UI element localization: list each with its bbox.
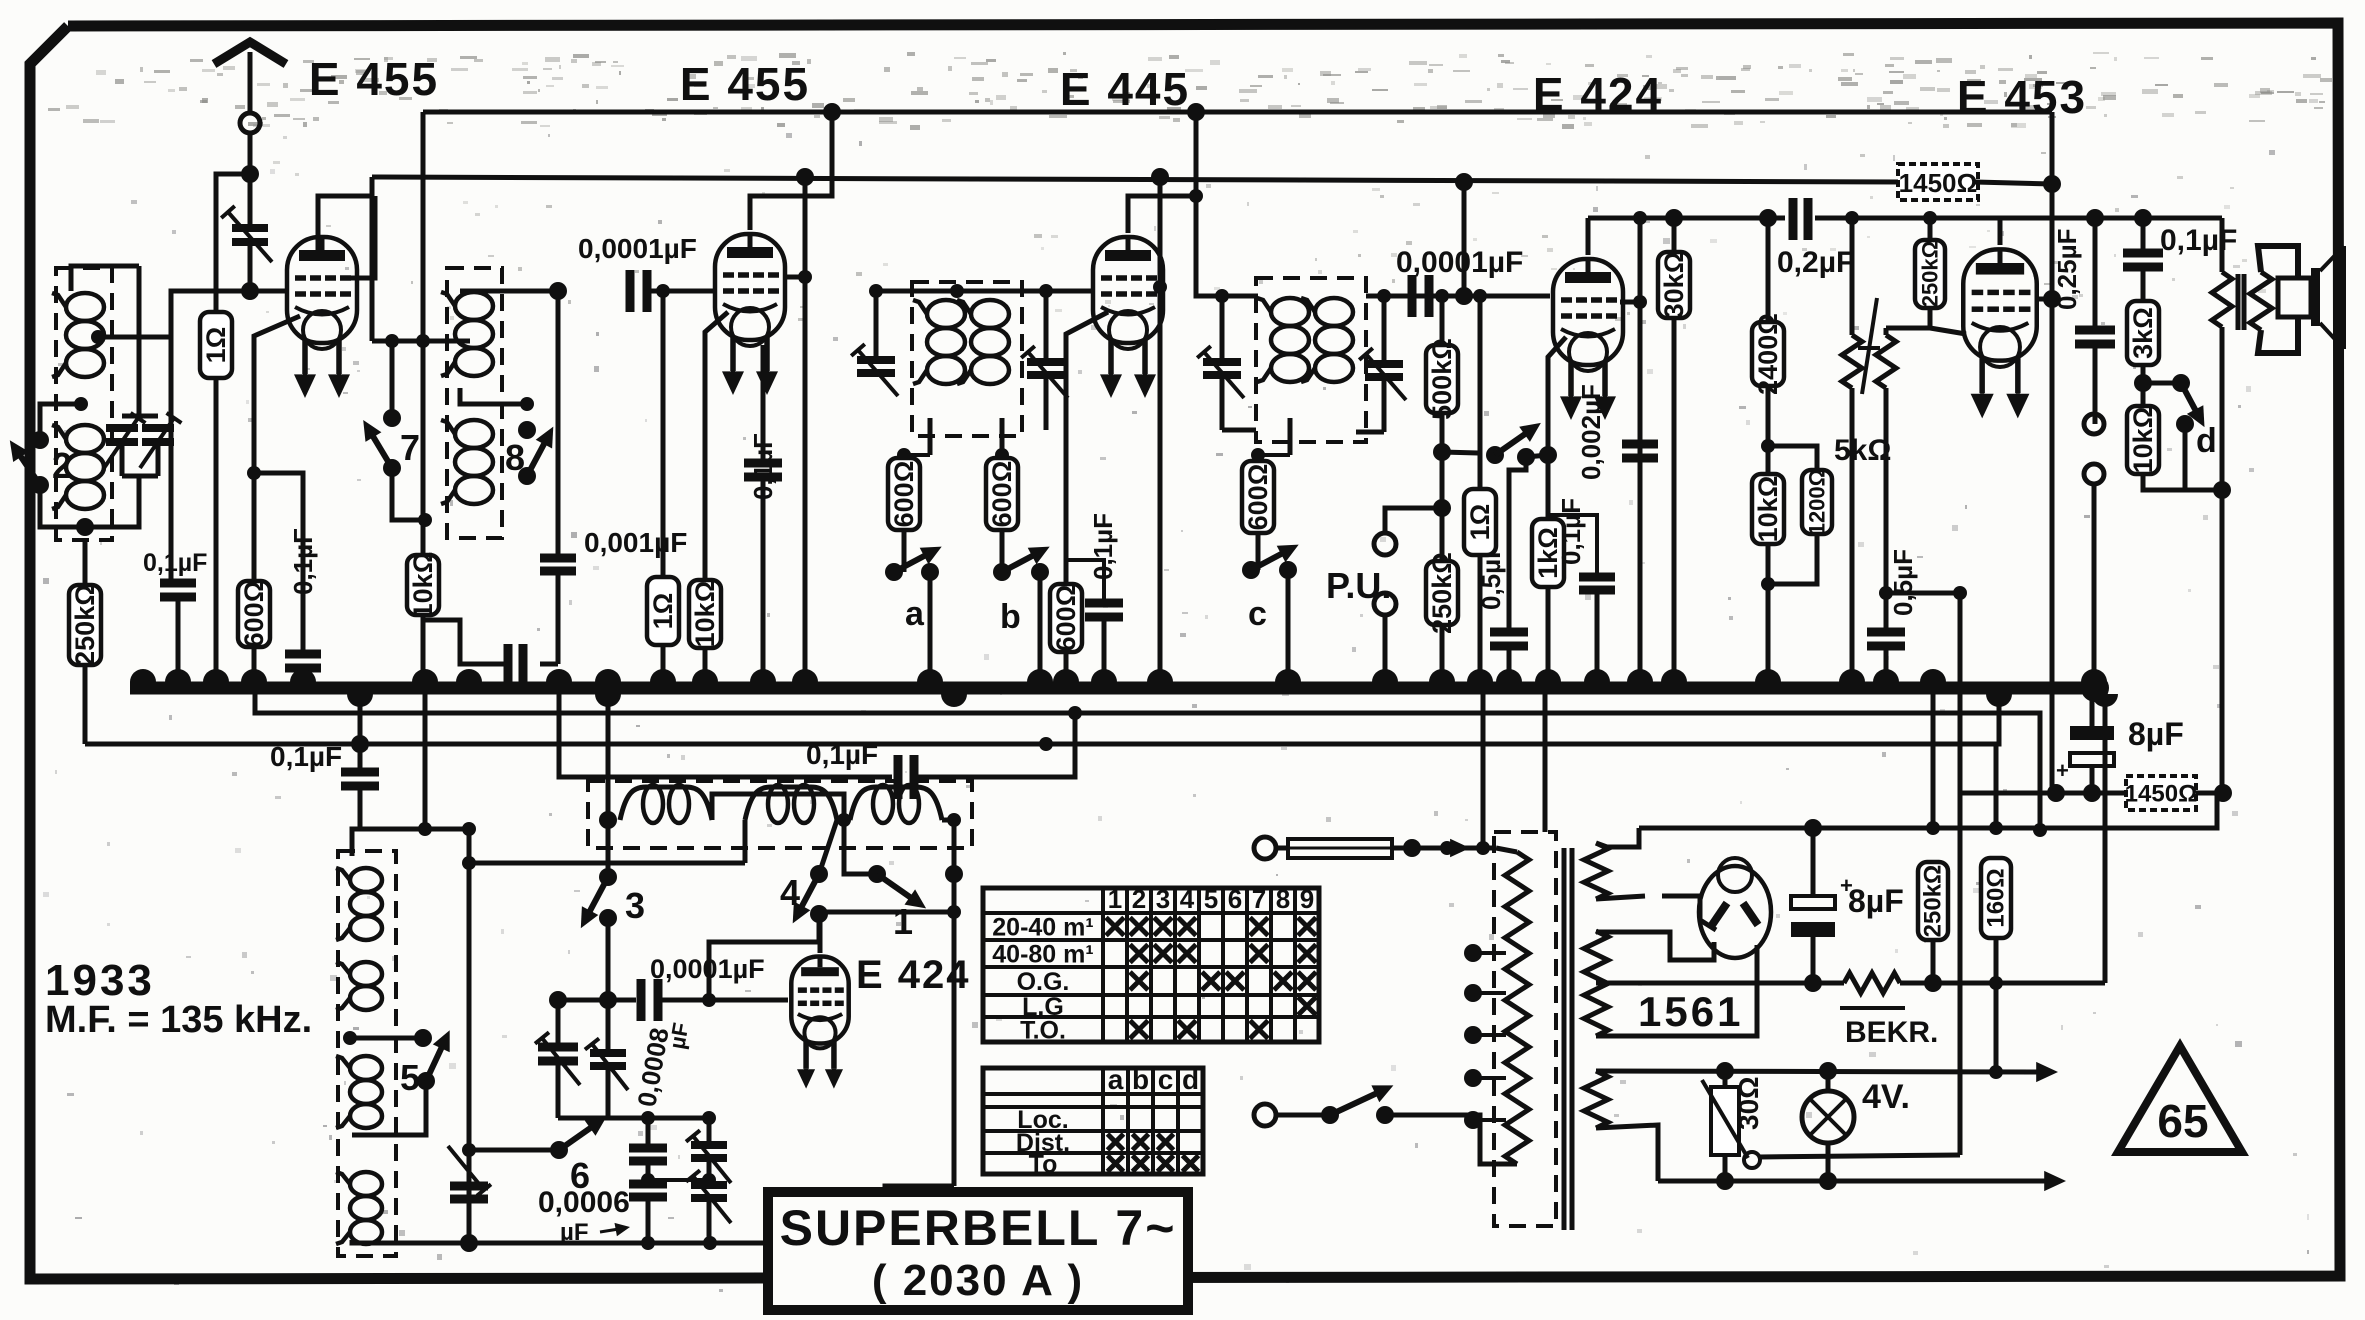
svg-text:0,1µF: 0,1µF bbox=[288, 528, 318, 595]
switch 3 bbox=[606, 688, 611, 820]
wire heater bottom bbox=[1596, 1125, 1658, 1181]
resistor 1 ohm stage4 bbox=[1478, 296, 1483, 489]
switch d bbox=[2143, 381, 2181, 386]
capacitor 0.1uF cathode stage2 bbox=[761, 345, 766, 461]
svg-text:8µF: 8µF bbox=[1848, 883, 1904, 919]
svg-text:8: 8 bbox=[505, 437, 525, 478]
tube V5 E453 bbox=[1963, 249, 2037, 360]
wire HT rail bbox=[1639, 793, 2217, 828]
wire anode supply line 218 bbox=[1588, 216, 2222, 221]
svg-text:10kΩ: 10kΩ bbox=[1753, 476, 1783, 543]
svg-text:0,1µF: 0,1µF bbox=[806, 739, 878, 770]
wire to 1ohm resistor bbox=[216, 174, 250, 312]
svg-text:8: 8 bbox=[1276, 884, 1290, 914]
svg-text:600Ω: 600Ω bbox=[239, 581, 269, 648]
wire field to 250k bbox=[1900, 981, 2105, 986]
wire 1ohm to bus bbox=[214, 378, 219, 688]
resistor 1k ohm stage4 cathode bbox=[1548, 337, 1566, 519]
resistor 3k ohm bbox=[2127, 301, 2159, 365]
svg-text:10kΩ: 10kΩ bbox=[690, 581, 720, 648]
resistor 1 ohm stage2 bbox=[661, 291, 666, 577]
wire osc feed column bbox=[423, 688, 428, 829]
node trimmer left stage3 bbox=[869, 284, 883, 298]
tube V2 E455 bbox=[715, 234, 785, 340]
scan noise speckles bbox=[1498, 54, 1504, 57]
oscillator coil dashed box bbox=[338, 851, 396, 1256]
mains transformer primary dashed box bbox=[1494, 832, 1556, 1226]
switch 5 bbox=[350, 1036, 423, 1041]
switch 2 bbox=[40, 404, 81, 440]
trimmer cap stage4 right bbox=[1377, 289, 1391, 303]
node T5 grid bbox=[2043, 290, 2061, 308]
wire rectifier cathode bbox=[1596, 945, 1757, 1036]
label BEKR bbox=[1840, 1006, 1905, 1010]
resistor 250k ohm stage1 bbox=[83, 540, 88, 585]
wire padder bottoms bbox=[558, 1116, 709, 1121]
coil L3a bbox=[927, 300, 965, 328]
svg-text:b: b bbox=[1132, 1064, 1149, 1095]
node T4 screen supply bbox=[1633, 211, 1647, 225]
svg-text:0,0001µF: 0,0001µF bbox=[650, 954, 765, 984]
node 1ohm stage2 bbox=[656, 284, 670, 298]
resistor 30k ohm bbox=[1672, 218, 1677, 252]
svg-text:250kΩ: 250kΩ bbox=[1920, 865, 1947, 938]
osc coil H3 bbox=[850, 787, 942, 820]
svg-text:1Ω: 1Ω bbox=[648, 593, 678, 630]
wire rail below bus 713 bbox=[255, 688, 2040, 830]
svg-text:P.U.: P.U. bbox=[1326, 565, 1391, 606]
trimmer cap stage4 left bbox=[1215, 289, 1229, 303]
svg-text:1Ω: 1Ω bbox=[1465, 504, 1495, 541]
resistor 2400 ohm bbox=[1766, 218, 1771, 322]
resistor 600 ohm a bbox=[897, 448, 911, 462]
switch 4 bbox=[810, 865, 828, 883]
svg-text:160Ω: 160Ω bbox=[1983, 868, 2010, 927]
node 0.001 junction bbox=[549, 282, 567, 300]
wire coil top to grid cap bbox=[460, 289, 558, 294]
mains switch terminal bbox=[1254, 1104, 1276, 1126]
wire T5 grid bbox=[2036, 297, 2052, 302]
svg-text:1933: 1933 bbox=[45, 956, 155, 1005]
switch 8 bbox=[520, 397, 534, 411]
resistor 600 ohm b bbox=[995, 448, 1009, 462]
wire padder mid link bbox=[648, 1178, 709, 1182]
node osc top bbox=[418, 822, 432, 836]
revision triangle 65 bbox=[2118, 1046, 2242, 1152]
wire T3 screen bbox=[1158, 177, 1163, 688]
trimmer cap stage3 left bbox=[874, 291, 879, 358]
svg-text:E 455: E 455 bbox=[309, 53, 439, 105]
wire osc right column bbox=[467, 829, 472, 1243]
svg-text:250kΩ: 250kΩ bbox=[1918, 241, 1943, 308]
resistor 600 ohm stage3 cathode bbox=[1066, 312, 1108, 584]
resistor 1 ohm stage1 bbox=[200, 312, 232, 378]
svg-text:0,0001µF: 0,0001µF bbox=[1396, 246, 1523, 279]
wire rail B drop stage4 bbox=[1462, 182, 1467, 296]
node T3 anode bbox=[1189, 189, 1203, 203]
resistor 1450 ohm second bbox=[2126, 776, 2196, 810]
secondary winding HV bbox=[1584, 843, 1608, 899]
switch 1 bbox=[868, 865, 886, 883]
wire coil bottoms stage3 bbox=[928, 418, 933, 455]
svg-text:+: + bbox=[2056, 758, 2069, 783]
wire 500k to switch row bbox=[1440, 413, 1445, 508]
transformer primary winding bbox=[1505, 852, 1529, 1164]
resistor 1450 ohm bbox=[1898, 164, 1978, 200]
capacitor 0.1uF cathode stage1 bbox=[254, 473, 303, 654]
svg-text:1450Ω: 1450Ω bbox=[1899, 168, 1978, 198]
resistor 10k ohm stage5 bbox=[1766, 386, 1771, 474]
node grid stage1 bbox=[241, 282, 259, 300]
IF transformer 3 dashed box bbox=[912, 282, 1022, 436]
oscillator padder dashed box bbox=[588, 781, 972, 848]
svg-text:T.O.: T.O. bbox=[1020, 1017, 1066, 1045]
node 500k top bbox=[1435, 289, 1449, 303]
mains switch bbox=[1276, 1113, 1330, 1118]
wire rail A +HT top bbox=[423, 110, 2052, 115]
svg-text:30Ω: 30Ω bbox=[1733, 1076, 1764, 1130]
switch PU change bbox=[1442, 452, 1478, 453]
node T3 rail A bbox=[1187, 103, 1205, 121]
svg-text:250kΩ: 250kΩ bbox=[1427, 552, 1457, 634]
wire rect fil lead bbox=[1596, 932, 1714, 960]
wire heater return rail bbox=[1658, 1179, 2048, 1184]
resistor 600 ohm stage1 cathode bbox=[254, 316, 300, 581]
output transformer core bbox=[2236, 274, 2241, 330]
phone jack terminals bbox=[2084, 414, 2104, 434]
svg-text:500kΩ: 500kΩ bbox=[1427, 338, 1457, 420]
wire rail B left drop to T1 anode bbox=[318, 177, 372, 252]
ground bus bbox=[130, 682, 2105, 695]
capacitor 0.5uF stage4 bbox=[1509, 457, 1526, 632]
wire T4 anode bbox=[1586, 218, 1591, 255]
tube V4 E424 IF bbox=[1553, 259, 1623, 365]
speaker voice coil bbox=[2250, 272, 2272, 330]
wire osc anode bbox=[820, 912, 954, 953]
coil L4b bbox=[1315, 298, 1353, 326]
node stage4 grid bbox=[1455, 287, 1473, 305]
svg-text:1: 1 bbox=[893, 901, 913, 942]
svg-text:7: 7 bbox=[400, 427, 420, 468]
node T2 anode rail A bbox=[823, 103, 841, 121]
tube V3 E445 bbox=[1093, 237, 1163, 343]
svg-text:µF: µF bbox=[664, 1021, 693, 1051]
svg-text:1561: 1561 bbox=[1638, 988, 1743, 1035]
coil L3b bbox=[971, 300, 1009, 328]
wire rect filament bbox=[1700, 920, 1716, 930]
svg-text:d: d bbox=[2196, 422, 2217, 460]
svg-text:To: To bbox=[1029, 1151, 1058, 1179]
capacitor 0.1uF stage1 grid return bbox=[169, 337, 174, 583]
IF transformer 4 dashed box bbox=[1256, 278, 1366, 442]
svg-text:3: 3 bbox=[625, 885, 645, 926]
wire sw1 to coil H3 bbox=[844, 820, 877, 874]
bus junction bumps bbox=[130, 669, 156, 682]
node rail B end bbox=[2043, 175, 2061, 193]
svg-text:0,0006: 0,0006 bbox=[538, 1186, 630, 1219]
resistor 250k ohm psu bbox=[1931, 694, 1936, 828]
svg-text:9: 9 bbox=[1300, 884, 1314, 914]
wire rail A right drop to E453 grid bbox=[2050, 112, 2055, 299]
primary taps bbox=[1464, 944, 1482, 962]
svg-text:µF: µF bbox=[560, 1219, 589, 1246]
svg-text:600Ω: 600Ω bbox=[1243, 464, 1273, 531]
wire hum pot feed bbox=[1958, 593, 1963, 1155]
wire grid bias line bbox=[1962, 791, 2126, 796]
node coil tap bbox=[91, 330, 105, 344]
node coil bottom bbox=[76, 518, 94, 536]
wire bus to transformer riser bbox=[1543, 688, 1548, 832]
IF transformer 1 dashed box bbox=[56, 268, 112, 540]
svg-text:5: 5 bbox=[400, 1057, 420, 1098]
svg-text:1450Ω: 1450Ω bbox=[2125, 781, 2198, 808]
speaker field return bbox=[2220, 327, 2225, 793]
node coil L3a top bbox=[950, 284, 964, 298]
secondary winding heaters 4V bbox=[1584, 1071, 1608, 1128]
secondary winding rect filament bbox=[1584, 931, 1608, 1036]
IF transformer 2 dashed box bbox=[447, 268, 502, 538]
capacitor 0.1uF stage3 cathode bbox=[1066, 560, 1104, 601]
resistor 500k ohm bbox=[1440, 296, 1445, 345]
volume pot 5k zigzag bbox=[1884, 328, 1889, 335]
svg-text:0,1µF: 0,1µF bbox=[143, 549, 207, 577]
svg-text:7: 7 bbox=[1252, 884, 1266, 914]
wire rail B screen supply bbox=[372, 177, 1903, 182]
svg-text:5kΩ: 5kΩ bbox=[1834, 434, 1891, 467]
wire 250k to AVC line bbox=[83, 665, 88, 744]
wire coil box top bbox=[352, 829, 361, 856]
wire AVC rail 777 bbox=[559, 688, 892, 777]
coil L1a bbox=[66, 293, 104, 321]
divider zigzag left bbox=[1850, 218, 1855, 335]
fuse bbox=[1276, 846, 1288, 851]
osc coil W3 bbox=[350, 1056, 382, 1080]
svg-text:3: 3 bbox=[1156, 884, 1170, 914]
osc coil H2 bbox=[743, 820, 748, 863]
svg-text:M.F. = 135 kHz.: M.F. = 135 kHz. bbox=[45, 999, 312, 1041]
speaker horn bbox=[2320, 246, 2344, 271]
wire H2 to switch4 bbox=[819, 820, 837, 874]
osc coil W2 bbox=[350, 962, 382, 986]
wire grid line T1 bbox=[98, 291, 287, 337]
resistor 250k grid E453 bbox=[1845, 211, 1859, 225]
node T3 screen rail B bbox=[1151, 168, 1169, 186]
osc coil W4 bbox=[350, 1172, 382, 1196]
svg-text:1: 1 bbox=[1108, 884, 1122, 914]
switch 7 bbox=[385, 334, 399, 348]
wire osc cathode return bbox=[885, 1186, 954, 1243]
wire osc grid line bbox=[558, 998, 636, 1003]
svg-text:b: b bbox=[1000, 598, 1021, 636]
svg-text:a: a bbox=[905, 595, 925, 633]
switch a bbox=[902, 530, 907, 572]
wire bus to fuse line riser bbox=[1481, 688, 1486, 848]
svg-text:0,0001µF: 0,0001µF bbox=[578, 233, 697, 264]
node y218 caps bbox=[2086, 209, 2104, 227]
field coil BEKR bbox=[1844, 973, 1900, 993]
speaker leads bbox=[2258, 246, 2298, 278]
wire T2 screen bbox=[803, 177, 808, 688]
wire cap to T2 grid bbox=[647, 289, 716, 294]
wire osc bottom bbox=[352, 1240, 469, 1243]
wire osc top line bbox=[361, 827, 469, 832]
trimmer cap pair stage1 bbox=[122, 414, 158, 419]
wire fuse to primary bbox=[1392, 846, 1496, 851]
node 30k bbox=[1665, 209, 1683, 227]
node 744 bbox=[1039, 737, 1053, 751]
wire anode to rail A and IF3 bbox=[1196, 112, 1258, 296]
coil L4a bbox=[1271, 298, 1309, 326]
svg-text:2400Ω: 2400Ω bbox=[1753, 313, 1783, 395]
svg-text:20-40 m¹: 20-40 m¹ bbox=[992, 914, 1093, 942]
node AVC join bbox=[351, 735, 369, 753]
wire grid return down bbox=[2050, 299, 2055, 793]
svg-text:4: 4 bbox=[780, 872, 800, 913]
switch table 2 bbox=[983, 1068, 1203, 1174]
node B tap bbox=[1804, 974, 1822, 992]
svg-text:3kΩ: 3kΩ bbox=[2128, 307, 2158, 359]
svg-text:65: 65 bbox=[2157, 1095, 2208, 1147]
wire rail B right end bbox=[1975, 182, 2052, 184]
wire B+ tap bbox=[1596, 981, 1844, 986]
wire bus to B- bbox=[2103, 688, 2108, 983]
wire rail A left drop bbox=[421, 112, 426, 555]
switch table 1 bbox=[983, 888, 1319, 1042]
svg-text:2: 2 bbox=[1132, 884, 1146, 914]
wire sw1 column bbox=[952, 874, 957, 912]
tube V6 E424 oscillator bbox=[791, 957, 848, 1044]
svg-text:SUPERBELL 7~: SUPERBELL 7~ bbox=[780, 1200, 1177, 1256]
wire T3 anode bbox=[1128, 196, 1196, 233]
svg-text:+: + bbox=[1840, 873, 1853, 898]
resistor 1200 ohm bbox=[1768, 446, 1817, 470]
antenna bbox=[248, 52, 253, 114]
trimmer cap stage3 right bbox=[1044, 291, 1049, 360]
wire HV bottom lead broken bbox=[1596, 896, 1645, 899]
resistor 250k ohm stage4 bbox=[1433, 499, 1451, 517]
wire switch to primary bottom bbox=[1385, 1115, 1517, 1164]
switch b bbox=[1000, 530, 1005, 572]
wire grid line stage3 bbox=[876, 289, 1094, 294]
svg-text:E 445: E 445 bbox=[1060, 63, 1190, 115]
wire to twin trimmers bbox=[137, 266, 142, 416]
wire T1 anode lead bbox=[316, 233, 321, 252]
wire T1 screen bbox=[345, 196, 375, 278]
title box SUPERBELL bbox=[768, 1192, 1188, 1310]
svg-text:600Ω: 600Ω bbox=[889, 461, 919, 528]
rheostat 30 ohm bbox=[1723, 1071, 1728, 1087]
node cathode net bbox=[247, 466, 261, 480]
wire T2 anode bbox=[750, 112, 832, 230]
wire antenna lead bbox=[248, 133, 253, 174]
mains fuse terminal bbox=[1254, 837, 1276, 859]
transformer core bbox=[1562, 848, 1567, 1230]
output transformer primary bbox=[2220, 218, 2225, 272]
svg-text:0,1µF: 0,1µF bbox=[2160, 224, 2237, 257]
wire heater rail bbox=[1596, 1071, 2040, 1072]
osc padding caps left bbox=[556, 1000, 561, 1045]
pot wiper arrow bbox=[1862, 298, 1877, 394]
capacitor 0.1uF stage4 cathode bbox=[1548, 515, 1597, 577]
wire IF4 secondary to grid bbox=[1366, 294, 1550, 299]
svg-text:5: 5 bbox=[1204, 884, 1218, 914]
resistor 10k ohm stage2b bbox=[705, 312, 728, 580]
trimmer cap 0.0006 bbox=[467, 1150, 472, 1184]
node T2 screen rail B bbox=[796, 168, 814, 186]
svg-text:0,1µF: 0,1µF bbox=[1556, 498, 1586, 565]
svg-text:600Ω: 600Ω bbox=[987, 461, 1017, 528]
svg-text:250kΩ: 250kΩ bbox=[70, 584, 100, 666]
svg-text:0,5µF: 0,5µF bbox=[1888, 549, 1918, 616]
node stage3 grid right bbox=[1039, 284, 1053, 298]
node HT bbox=[1804, 819, 1822, 837]
resistor 600 ohm stage4 bbox=[1288, 418, 1293, 455]
wire coil L2 mid tap bbox=[460, 388, 527, 404]
svg-text:2: 2 bbox=[52, 445, 72, 486]
wire coil8 line bbox=[372, 339, 470, 344]
svg-text:BEKR.: BEKR. bbox=[1845, 1016, 1938, 1049]
trimmer capacitor antenna bbox=[248, 174, 253, 226]
antenna terminal bbox=[240, 113, 260, 133]
svg-text:1200Ω: 1200Ω bbox=[1805, 469, 1830, 536]
svg-text:0,25µF: 0,25µF bbox=[2052, 229, 2082, 310]
wire hum pot wiper bbox=[1759, 1155, 1960, 1157]
svg-text:d: d bbox=[1182, 1064, 1199, 1095]
svg-text:4: 4 bbox=[1180, 884, 1195, 914]
wire osc bottom line bbox=[469, 1241, 885, 1246]
svg-text:O.G.: O.G. bbox=[1017, 968, 1070, 996]
node antenna junction bbox=[241, 165, 259, 183]
switch 6 bbox=[462, 1143, 476, 1157]
svg-text:1Ω: 1Ω bbox=[201, 327, 231, 364]
wire bias line 593 bbox=[1886, 388, 1960, 593]
capacitor 0.001uF series bbox=[540, 662, 558, 667]
node speaker return bbox=[2214, 784, 2232, 802]
rectifier tube 1561 bbox=[1699, 866, 1771, 958]
coil L2b bbox=[455, 420, 493, 448]
coil L1b bbox=[66, 425, 104, 453]
wire rail below bus 744 bbox=[85, 694, 1999, 744]
resistor 160 ohm psu bbox=[1994, 744, 1999, 828]
wire coil top lead bbox=[71, 266, 139, 291]
svg-text:30kΩ: 30kΩ bbox=[1659, 252, 1689, 319]
node 713 bbox=[1068, 706, 1082, 720]
wire trimmers to coil bottom bbox=[85, 476, 139, 527]
tube V1 E455 bbox=[287, 237, 357, 343]
svg-text:8µF: 8µF bbox=[2128, 716, 2184, 752]
svg-text:c: c bbox=[1248, 595, 1267, 633]
svg-text:a: a bbox=[1108, 1064, 1124, 1095]
svg-text:( 2030 A ): ( 2030 A ) bbox=[872, 1256, 1084, 1305]
svg-text:0,2µF: 0,2µF bbox=[1777, 246, 1854, 279]
osc coil H1 bbox=[599, 811, 617, 829]
speaker driver bbox=[2278, 278, 2311, 317]
coil L2a bbox=[455, 292, 493, 320]
svg-text:0,001µF: 0,001µF bbox=[584, 527, 687, 558]
wire T5 anode bbox=[1998, 218, 2003, 245]
node 2400 bbox=[1759, 209, 1777, 227]
bus end blob bbox=[2081, 674, 2109, 702]
wire osc line 863 bbox=[469, 861, 745, 866]
node 8uF out bbox=[2083, 784, 2101, 802]
svg-text:600Ω: 600Ω bbox=[1051, 585, 1081, 652]
node stage2 coil line bbox=[416, 334, 430, 348]
osc coil W1 bbox=[350, 868, 382, 892]
wire H1 jumper bbox=[712, 794, 844, 820]
resistor 10k ohm tone bbox=[2141, 383, 2146, 406]
svg-text:0,1µF: 0,1µF bbox=[1088, 513, 1118, 580]
node rail B stage4 bbox=[1455, 173, 1473, 191]
